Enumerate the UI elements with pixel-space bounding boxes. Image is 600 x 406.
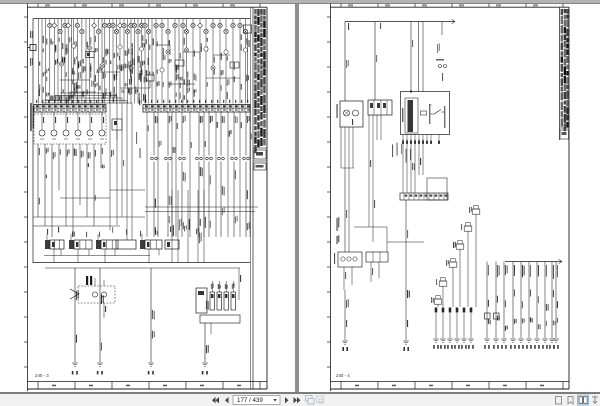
sub box right of bundle [427,178,447,200]
aux unit box [368,100,392,115]
view icon single page [556,397,562,405]
buses below relay row [33,256,250,269]
right drop wires to grounds with labels [484,262,559,349]
pin tick marks above connector strips [36,100,248,103]
toolbar prev page button [225,397,229,403]
left rail wire with battery tap [28,19,37,263]
page number 240-3 [35,373,49,378]
fuse circles row 2 [58,29,248,33]
bottom toolbar [0,394,600,406]
toolbar snapshot icon disabled [306,396,315,405]
left page top ruler [28,4,268,8]
routing wires from lamp unit down [337,115,425,252]
relay box upper-left K1 [86,51,94,57]
top feed wire with arrow [345,19,455,30]
ground wire B [403,200,410,351]
left page title block with rotated text [251,7,268,389]
top bus wire [33,18,250,20]
toolbar page input box [233,396,280,405]
mid routing buses [33,190,258,226]
wire drop to aux unit [375,22,377,101]
relay row box far right [165,240,179,249]
wires descending from X1 strip [38,144,105,237]
svg-text:240 - 3: 240 - 3 [35,373,49,378]
diode box top right [244,25,252,103]
wires descending from X2 strip with plug pairs [151,112,250,237]
view icon bookmark [568,397,573,405]
function labels right of control unit [392,143,411,163]
toolbar next page button [285,397,289,403]
relay coil group dashed box [34,112,106,144]
toolbar first-page button [212,397,219,403]
labels above relay row [47,225,199,237]
misc stubs bottom left page [104,268,241,334]
extra mid verticals [147,112,252,237]
toolbar clipboard icon disabled [317,396,324,403]
bottom separator [0,392,600,394]
resistor array block with bracket [196,281,240,323]
left page bottom ruler [28,382,268,390]
lamp unit box [337,101,364,127]
right bus wire with arrow [505,259,562,263]
wire bundle below control unit [403,139,423,193]
small component box in elbow bundle [112,119,122,140]
small box components upper area [146,60,239,81]
component circles mid rows [59,44,247,72]
fuse circles row 1 [48,23,243,28]
relay row wide box right [116,240,136,249]
lower-left unit box with pins [334,252,362,267]
arrow towing dashed box [70,276,115,303]
view icon two-page active [578,395,589,405]
top window strip [0,0,600,3]
ground wire A [342,290,349,351]
wire drop to lamp unit [345,22,349,102]
extra dense labels cluster upper mid [39,56,149,106]
nested elbow wire bundle between strips [42,93,141,240]
right page frame: left ruler [327,4,331,392]
stair-step jog wires upper section [44,45,240,100]
page number 240-4 [336,373,350,378]
svg-text:240 - 4: 240 - 4 [336,373,350,378]
right page top ruler [331,4,570,8]
cascade plug connectors [431,206,480,308]
svg-text:177 / 439: 177 / 439 [237,397,263,404]
key contact symbols [436,22,447,82]
right page title block [560,7,570,389]
gap between pages [295,4,299,392]
right page bottom ruler [331,382,570,390]
control unit bottom pins [402,135,440,144]
ground wires and symbols left page [72,268,209,375]
view icon continuous scroll [592,396,598,404]
fuse ladder wires top section [38,19,249,104]
connector strip X1 [34,105,106,113]
left page frame: left ruler line [24,4,28,392]
wires below lower-left units [344,262,379,290]
lower connector strip of control unit [400,193,448,200]
lower-left unit box 2 [366,252,388,262]
connector strip X2 [143,105,250,113]
vertical label texts right of relay row [172,190,206,263]
cascade lower connectors and grounds [433,308,474,349]
wire drops to control unit [410,22,423,93]
control unit box [401,92,450,135]
toolbar last-page button [294,397,301,403]
two inline square components [485,313,500,319]
relay row K2-K6 with connector blocks [45,234,179,263]
